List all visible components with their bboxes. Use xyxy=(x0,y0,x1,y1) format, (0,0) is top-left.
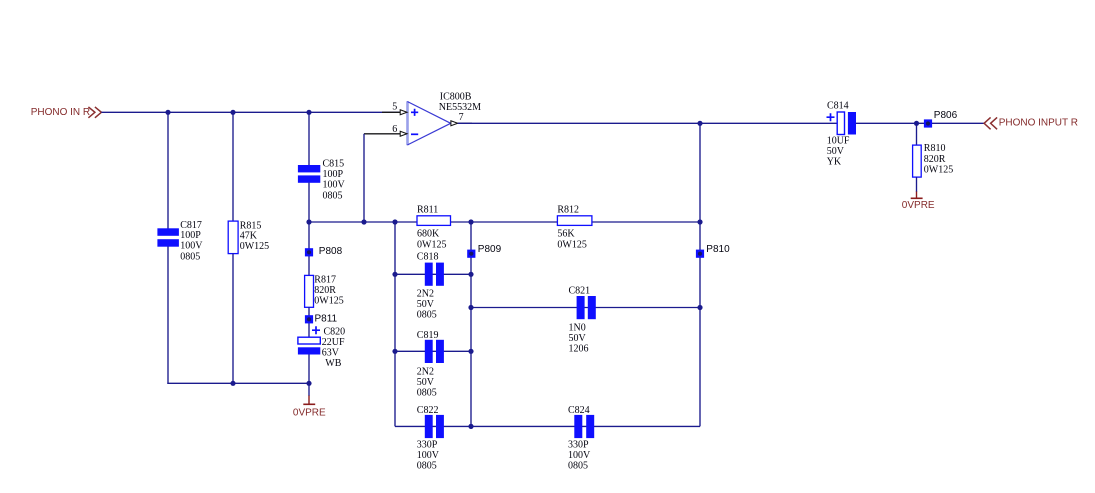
junction row222 at 395 xyxy=(392,219,397,224)
wire C819 row xyxy=(395,350,471,352)
svg-text:50V: 50V xyxy=(569,333,587,344)
svg-text:6: 6 xyxy=(392,124,397,135)
svg-text:0W125: 0W125 xyxy=(314,296,343,307)
wire node down to P808 xyxy=(308,222,310,276)
wire feedback row (y=222) xyxy=(309,221,700,223)
wire C817 column upper xyxy=(167,112,169,228)
test point P808 xyxy=(305,246,343,257)
svg-text:0W125: 0W125 xyxy=(924,165,953,176)
svg-text:R812: R812 xyxy=(557,205,579,216)
wire C814 to output port xyxy=(856,122,984,124)
svg-text:330P: 330P xyxy=(417,439,438,450)
capacitor C822 xyxy=(417,405,444,472)
svg-text:PHONO INPUT R: PHONO INPUT R xyxy=(999,117,1078,128)
capacitor C820 (electrolytic) xyxy=(298,326,345,369)
ground 0VPRE (right) xyxy=(902,177,935,211)
svg-text:50V: 50V xyxy=(827,146,845,157)
svg-text:P806: P806 xyxy=(934,110,958,121)
svg-text:100V: 100V xyxy=(323,179,346,190)
wire right rail x=700 xyxy=(699,123,701,426)
svg-text:0VPRE: 0VPRE xyxy=(293,407,326,418)
capacitor C819 xyxy=(417,330,444,399)
svg-text:100V: 100V xyxy=(417,450,440,461)
junction bottom row at 471 xyxy=(468,424,473,429)
svg-text:100P: 100P xyxy=(323,169,344,180)
svg-text:330P: 330P xyxy=(568,439,589,450)
junction top at R815 xyxy=(230,110,235,115)
junction feedback row at 364 xyxy=(361,219,366,224)
svg-text:0W125: 0W125 xyxy=(557,239,586,250)
svg-text:P809: P809 xyxy=(478,244,502,255)
svg-text:0W125: 0W125 xyxy=(240,241,269,252)
junction row222 at 471 xyxy=(468,219,473,224)
svg-text:P810: P810 xyxy=(706,244,730,255)
junction C819 row left xyxy=(392,349,397,354)
pin 7 (output) xyxy=(451,112,472,126)
junction row222 at 700 xyxy=(697,219,702,224)
svg-text:100V: 100V xyxy=(568,450,591,461)
wire bottom row y=426 xyxy=(395,425,700,427)
junction top at C817 xyxy=(165,110,170,115)
svg-text:63V: 63V xyxy=(322,347,340,358)
resistor R815 xyxy=(228,220,269,253)
wire R815 column upper xyxy=(232,112,234,222)
pin 6 (inverting input) xyxy=(364,124,407,136)
svg-text:50V: 50V xyxy=(417,299,435,310)
svg-text:2N2: 2N2 xyxy=(417,367,434,378)
svg-text:1N0: 1N0 xyxy=(569,323,586,334)
svg-text:820R: 820R xyxy=(924,154,946,165)
wire R810 column xyxy=(916,123,918,145)
svg-text:50V: 50V xyxy=(417,377,435,388)
svg-text:P808: P808 xyxy=(319,246,343,257)
svg-text:R811: R811 xyxy=(417,205,438,216)
wire C821 row xyxy=(471,307,700,309)
svg-text:R817: R817 xyxy=(314,275,336,286)
svg-text:0805: 0805 xyxy=(417,310,437,321)
svg-text:680K: 680K xyxy=(417,229,440,240)
pin 5 (non-inverting input) xyxy=(382,102,407,115)
svg-text:5: 5 xyxy=(392,102,397,113)
svg-text:C815: C815 xyxy=(323,159,345,170)
svg-text:C814: C814 xyxy=(827,100,849,111)
svg-text:22UF: 22UF xyxy=(322,337,345,348)
junction C818 row right xyxy=(468,272,473,277)
svg-text:PHONO IN R: PHONO IN R xyxy=(31,107,90,118)
svg-text:1206: 1206 xyxy=(569,344,589,355)
ground 0VPRE (left) xyxy=(293,383,326,418)
junction C821 row left xyxy=(468,305,473,310)
svg-text:C824: C824 xyxy=(568,405,590,416)
wire R817 to P811 xyxy=(308,307,310,337)
junction top at C815 xyxy=(306,110,311,115)
resistor R812 xyxy=(557,205,592,251)
wire R815 column lower xyxy=(232,254,234,383)
capacitor C815 xyxy=(298,159,346,202)
wire input net (top horizontal) xyxy=(101,111,400,113)
svg-text:820R: 820R xyxy=(314,285,336,296)
resistor R811 xyxy=(417,205,451,251)
capacitor C818 xyxy=(417,252,444,321)
capacitor C814 (electrolytic) xyxy=(827,100,857,167)
junction at R810 branch xyxy=(914,121,919,126)
wire C820 to bottom rail xyxy=(308,355,310,384)
svg-text:0VPRE: 0VPRE xyxy=(902,200,935,211)
junction C818 row left xyxy=(392,272,397,277)
svg-text:C821: C821 xyxy=(569,286,591,297)
svg-text:0805: 0805 xyxy=(417,461,437,472)
svg-text:2N2: 2N2 xyxy=(417,289,434,300)
junction node at (309,222) xyxy=(306,219,311,224)
wire op-amp output to C814 xyxy=(458,122,838,124)
wire pin6 vertical to feedback row xyxy=(363,134,365,222)
svg-text:C818: C818 xyxy=(417,252,439,263)
wire left rail x=395 xyxy=(394,222,396,426)
svg-text:0805: 0805 xyxy=(180,251,200,262)
op-amp IC800B xyxy=(407,92,481,146)
wire C815 to feedback node xyxy=(308,183,310,222)
svg-text:7: 7 xyxy=(459,112,464,123)
test point P806 xyxy=(924,110,958,128)
port PHONO IN R xyxy=(31,107,102,118)
capacitor C817 xyxy=(157,220,203,262)
svg-text:56K: 56K xyxy=(557,229,575,240)
svg-text:C822: C822 xyxy=(417,405,439,416)
wire C818 row xyxy=(395,273,471,275)
svg-text:0805: 0805 xyxy=(323,190,343,201)
svg-text:C819: C819 xyxy=(417,330,439,341)
wire C817 column lower xyxy=(167,247,169,384)
resistor R817 xyxy=(305,275,344,308)
junction C821 row right xyxy=(697,305,702,310)
junction bottom at C815 column xyxy=(306,381,311,386)
svg-text:0W125: 0W125 xyxy=(417,239,446,250)
test point P809 xyxy=(467,244,501,258)
port PHONO INPUT R xyxy=(984,117,1078,129)
svg-text:R810: R810 xyxy=(924,143,946,154)
junction bottom at R815 xyxy=(230,381,235,386)
junction output at feedback rail xyxy=(697,121,702,126)
svg-text:C820: C820 xyxy=(324,327,346,338)
capacitor C821 xyxy=(569,286,596,355)
svg-text:10UF: 10UF xyxy=(827,136,850,147)
wire bottom rail xyxy=(167,382,309,384)
svg-text:YK: YK xyxy=(827,157,842,168)
svg-text:100V: 100V xyxy=(180,240,203,251)
svg-text:0805: 0805 xyxy=(568,461,588,472)
test point P811 xyxy=(305,313,338,324)
svg-text:P811: P811 xyxy=(315,313,338,324)
resistor R810 xyxy=(913,143,954,177)
wire C815 column upper xyxy=(308,112,310,165)
svg-text:WB: WB xyxy=(325,358,341,369)
wire middle rail x=471 xyxy=(470,222,472,426)
capacitor C824 xyxy=(568,405,594,472)
svg-text:0805: 0805 xyxy=(417,388,437,399)
test point P810 xyxy=(696,244,730,258)
junction C819 row right xyxy=(468,349,473,354)
